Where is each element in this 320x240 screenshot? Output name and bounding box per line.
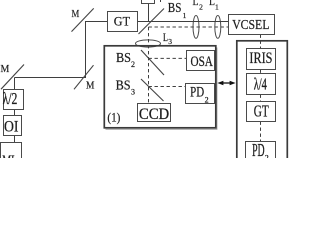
svg-text:2: 2 [265, 154, 269, 159]
svg-text:OSA: OSA [191, 53, 214, 70]
svg-text:M: M [86, 80, 95, 91]
svg-text:λ/2: λ/2 [3, 90, 18, 108]
svg-text:L: L [193, 0, 199, 8]
svg-text:2: 2 [131, 60, 135, 69]
svg-text:BS: BS [168, 0, 182, 15]
svg-text:VCSEL: VCSEL [232, 17, 269, 33]
svg-text:3: 3 [131, 88, 135, 97]
svg-text:2: 2 [205, 95, 209, 104]
svg-text:BS: BS [116, 49, 131, 65]
svg-text:PD: PD [190, 85, 204, 101]
svg-text:GT: GT [254, 103, 269, 121]
svg-text:BS: BS [116, 77, 131, 93]
svg-text:GT: GT [114, 15, 131, 29]
svg-text:ML: ML [2, 153, 17, 158]
svg-text:M: M [1, 63, 10, 75]
svg-text:CCD: CCD [139, 106, 170, 123]
svg-text:PD: PD [252, 141, 265, 158]
svg-text:L: L [163, 32, 168, 44]
svg-text:IRIS: IRIS [249, 50, 272, 67]
svg-text:λ/4: λ/4 [254, 76, 267, 94]
svg-text:1: 1 [183, 11, 187, 20]
svg-text:M: M [72, 9, 80, 20]
svg-text:OI: OI [4, 118, 19, 136]
svg-text:3: 3 [168, 37, 172, 46]
svg-text:1: 1 [215, 3, 219, 12]
svg-text:(1): (1) [107, 110, 120, 124]
svg-text:2: 2 [199, 3, 203, 12]
